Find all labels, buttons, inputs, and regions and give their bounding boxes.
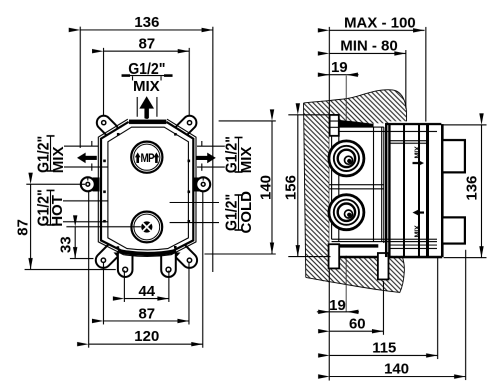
ear bottom-outer-left [93, 238, 126, 271]
ear mid-left [93, 177, 100, 191]
box verticals [331, 131, 333, 239]
screw lug 2 [378, 253, 389, 279]
svg-text:33: 33 [57, 236, 74, 253]
wall broken edge top [304, 90, 407, 122]
leader MIX left [64, 166, 108, 168]
box body fill [329, 127, 389, 256]
leader MIX left top [64, 145, 98, 147]
wall back edge [303, 103, 305, 277]
dim 87 top [104, 50, 190, 52]
box inner bottom lines [332, 238, 437, 240]
svg-text:MIX: MIX [50, 146, 67, 173]
leader COLD 2 [170, 222, 219, 224]
leader MIX right [197, 166, 225, 168]
body fill [101, 122, 193, 254]
top screw wedge [339, 120, 374, 127]
svg-text:MIX: MIX [238, 147, 255, 174]
ear hole mid-left [86, 182, 90, 186]
dim 156 [297, 115, 299, 257]
wall hatch band [303, 100, 329, 283]
dim 136 top [80, 29, 213, 31]
wall face line / common extension [328, 27, 330, 381]
screw lug 1 [329, 244, 340, 268]
svg-text:140: 140 [257, 175, 274, 200]
dim 140 right vertical [271, 121, 273, 254]
leader crosshair [66, 226, 140, 228]
bottom wedge left [113, 252, 137, 266]
body outer outline [98, 119, 196, 256]
svg-text:115: 115 [372, 339, 396, 356]
body inner outline [108, 127, 189, 250]
stop block top [442, 140, 465, 172]
dim 33 left vertical [74, 227, 76, 259]
bracket top [330, 115, 339, 136]
port face right [201, 141, 203, 146]
leader COLD 1 [170, 201, 219, 203]
flow arrow left [77, 153, 97, 164]
svg-text:60: 60 [349, 315, 366, 332]
svg-text:MIN - 80: MIN - 80 [340, 37, 398, 54]
cartridge inner bottom pair [389, 244, 437, 246]
cartridge inner top pair [389, 140, 427, 142]
svg-text:19: 19 [331, 59, 348, 76]
leader HOT 2 [63, 221, 108, 223]
MP mark [135, 152, 141, 163]
svg-text:136: 136 [134, 14, 159, 31]
flow arrow up [139, 96, 154, 118]
leader HOT 1 [63, 200, 108, 202]
cartridge verticals [385, 124, 387, 257]
cartridge top rail [385, 123, 441, 125]
ear hole bottom-outer-right [187, 258, 191, 262]
port axis line [345, 76, 347, 312]
body bottom bar [119, 251, 176, 254]
ear top-left [94, 113, 121, 140]
svg-text:87: 87 [139, 35, 156, 52]
wall broken edge bottom [306, 256, 405, 293]
svg-text:MAX - 100: MAX - 100 [344, 14, 416, 31]
leader MIX right top [197, 145, 225, 147]
ear hole bottom-inner-right [166, 267, 171, 272]
plug circle with crosshair [131, 212, 162, 243]
box top line [329, 126, 384, 128]
body top bar [129, 120, 166, 125]
svg-text:120: 120 [134, 328, 159, 345]
svg-text:87: 87 [138, 305, 155, 322]
ear top-right [173, 113, 200, 140]
svg-text:MIX: MIX [412, 225, 421, 237]
ear hole bottom-inner-left [123, 267, 128, 272]
body heavy outline [101, 122, 193, 254]
svg-text:136: 136 [464, 176, 481, 201]
assembly bottom rail [329, 256, 442, 258]
arrow flank ticks [136, 97, 138, 117]
svg-text:MIX: MIX [133, 78, 160, 95]
ear hole top-left [102, 121, 106, 125]
svg-text:COLD: COLD [238, 191, 255, 234]
svg-text:140: 140 [384, 360, 409, 377]
dim 44 bottom [124, 298, 168, 300]
nubs [117, 133, 120, 136]
box mid lines [329, 184, 384, 186]
flow arrow right [196, 153, 216, 164]
cartridge circle U1 [131, 142, 162, 173]
ear bottom-inner-right [161, 247, 176, 277]
svg-text:87: 87 [15, 219, 32, 236]
ear bottom-inner-left [118, 247, 133, 277]
ear hole top-right [187, 121, 191, 125]
port face left [91, 141, 93, 146]
wall hatch lower lobe [329, 256, 404, 293]
ear hole bottom-outer-left [101, 258, 105, 262]
dim 120 bottom [89, 343, 203, 345]
svg-text:156: 156 [283, 175, 300, 200]
dim 136 side [480, 125, 482, 258]
svg-text:MP: MP [140, 152, 154, 165]
bottom screw wedge [339, 244, 378, 247]
bottom wedge right [157, 252, 181, 266]
svg-text:44: 44 [138, 283, 155, 300]
wall hatch upper lobe [329, 90, 406, 127]
ear mid-right [194, 177, 201, 191]
box inner top line [332, 130, 437, 132]
ear bottom-outer-right [167, 238, 200, 271]
stop block bottom [442, 217, 465, 243]
dim 87 bottom [103, 320, 189, 322]
port circle bottom [329, 195, 364, 230]
dim 87 left vertical [30, 184, 32, 269]
ear hole mid-right [201, 182, 205, 186]
svg-text:MIX: MIX [413, 146, 422, 158]
port circle top [329, 141, 364, 176]
